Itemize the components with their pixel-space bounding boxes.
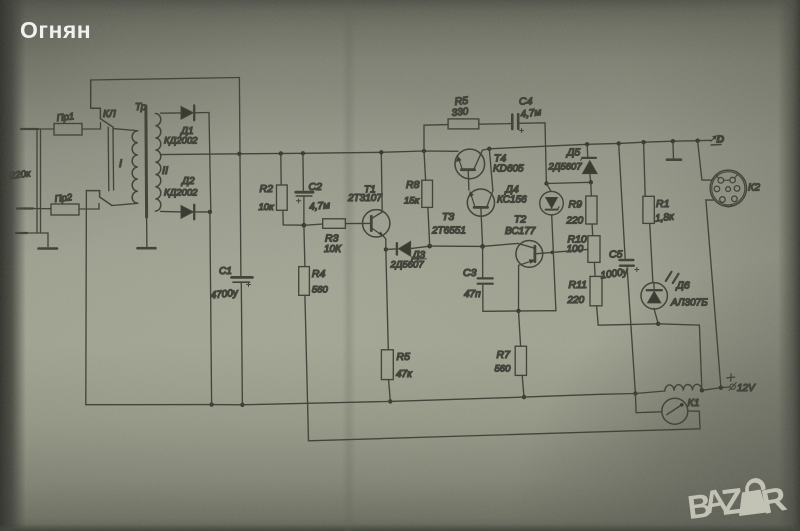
diode Д3 — [396, 243, 398, 254]
node dot after inductor — [700, 388, 704, 392]
svg-text:C4: C4 — [519, 96, 533, 108]
node bus dot K1 — [633, 391, 637, 395]
core ground stem — [146, 217, 148, 247]
wire K1 right contact to lower bus — [309, 411, 701, 441]
ground symbol mains — [39, 247, 58, 250]
diode Д2 — [181, 206, 193, 219]
resistor R3 — [323, 219, 346, 229]
resistor R5 330 — [448, 119, 479, 129]
resistor R7 — [519, 311, 521, 346]
mains prong 2 — [17, 207, 33, 209]
transformer secondary winding II — [155, 114, 160, 212]
transistor T4 — [455, 149, 485, 179]
wire node to corner down to inductor — [658, 324, 702, 391]
svg-text:R1: R1 — [656, 198, 669, 210]
switch linkage double line — [108, 127, 113, 191]
ground symbol transformer — [138, 247, 156, 250]
rail continues right of T4 — [483, 140, 711, 150]
svg-text:II: II — [162, 165, 168, 177]
wire Д1 to corner — [194, 112, 209, 114]
wire R11 bottom to LED node wire — [597, 306, 659, 325]
wire to fuse Пр1 — [38, 128, 54, 130]
secondary bottom wire to Д2 — [161, 210, 181, 213]
fuse Пр1 — [54, 124, 82, 136]
svg-text:Т3: Т3 — [442, 211, 454, 223]
wire to R3 — [304, 224, 323, 225]
node rail dot Д5 — [585, 142, 589, 146]
node bus dot C1 — [240, 403, 244, 407]
wire C5 bottom to bus — [627, 266, 635, 394]
main positive rail — [161, 151, 459, 155]
node bus dot 1 — [209, 402, 213, 406]
svg-text:2Д5607: 2Д5607 — [548, 162, 583, 173]
node rail dot T1 — [379, 150, 383, 154]
wire rail to K2 — [698, 141, 712, 180]
wire R9-R10 — [591, 224, 594, 236]
wire rail to R5 330 — [424, 125, 448, 151]
node rail dot C2 — [301, 151, 305, 155]
switch КЛ pole 1 blade — [91, 80, 114, 127]
diode Д4 zener in circle — [540, 191, 564, 215]
wire R1 to Д6 — [650, 223, 653, 282]
node rail dot ground — [671, 139, 675, 143]
resistor R9 — [590, 182, 593, 196]
wire emitter bottom node — [483, 310, 556, 313]
wire R8 to node — [428, 207, 430, 246]
svg-text:R7: R7 — [497, 349, 512, 361]
capacitor C5 — [619, 143, 626, 259]
wire Д2 to junction — [194, 211, 210, 213]
svg-text:330: 330 — [451, 106, 469, 119]
svg-text:Д5: Д5 — [566, 147, 580, 159]
wire R3 to T1 base — [345, 222, 371, 224]
wire T1 collector to rail — [380, 152, 383, 212]
wire R10-R11 — [593, 262, 596, 276]
wire Д3 to R8 node — [411, 246, 430, 248]
wire C4 to Д4 node — [519, 123, 547, 184]
wire Д6 to node — [654, 309, 658, 324]
svg-text:10К: 10К — [324, 244, 342, 255]
mains input prong top — [21, 128, 38, 130]
wire R4 down to lower bus — [305, 295, 309, 441]
svg-text:2Д5607: 2Д5607 — [390, 260, 425, 271]
wire T2 base from T3 node — [483, 243, 518, 246]
node Д6 bottom dot — [656, 322, 660, 326]
resistor R11 — [590, 276, 602, 305]
node Д5 bottom dot — [589, 180, 593, 184]
wire T3 base down — [481, 209, 483, 247]
secondary top wire to Д1 — [161, 112, 181, 114]
svg-text:I: I — [119, 158, 122, 170]
svg-text:R9: R9 — [569, 199, 583, 211]
svg-text:КЛ: КЛ — [103, 109, 116, 120]
wire T1 emitter down — [384, 236, 386, 249]
svg-text:КД2002: КД2002 — [164, 136, 198, 147]
svg-text:АЛ307Б: АЛ307Б — [670, 298, 708, 309]
node Д2 junction dot — [208, 210, 212, 214]
mains cable double wire — [37, 129, 41, 232]
resistor R5 47к — [381, 350, 393, 380]
svg-text:220: 220 — [566, 216, 584, 227]
ground symbol rail — [672, 141, 675, 159]
node collector crossing dot — [551, 251, 555, 255]
diode Д4 stem top — [547, 184, 552, 192]
wire rail dot to T3 collector — [489, 149, 493, 191]
wire R5 330 to C4 — [479, 123, 511, 126]
svg-text:10к: 10к — [259, 202, 275, 213]
svg-text:R4: R4 — [312, 268, 326, 280]
relay K1 — [662, 398, 688, 424]
svg-text:К1: К1 — [688, 397, 700, 409]
wire rail to R8 — [424, 151, 426, 180]
zener Д5 — [586, 144, 589, 157]
svg-text:КС156: КС156 — [497, 195, 527, 206]
wire emitter line down to R5 — [386, 249, 389, 349]
wire T4 base to T3 — [467, 170, 470, 190]
bottom bus — [86, 391, 665, 405]
wire R7 to bus — [522, 375, 524, 397]
svg-text:R3: R3 — [325, 233, 339, 245]
svg-text:ВС177: ВС177 — [505, 226, 536, 237]
wire rectifier output down to bus — [210, 212, 212, 405]
wire to fuse Пр2 — [29, 208, 51, 210]
svg-text:Пр2: Пр2 — [54, 192, 73, 205]
wire C3 bottom — [482, 284, 484, 312]
earth wire — [27, 233, 48, 247]
wire C1 to bus — [241, 282, 242, 405]
terminal +D arrow — [711, 137, 716, 142]
transistor T3 — [467, 189, 494, 216]
node rail dot R1 — [641, 140, 645, 144]
node base divider dot — [302, 223, 307, 228]
svg-text:15к: 15к — [404, 196, 420, 207]
left outer wire down to bottom bus — [85, 191, 88, 405]
wire T2 emitter down — [518, 265, 520, 311]
node rail dot R8/R5 — [422, 149, 426, 153]
node rail-topwire junction dot — [237, 152, 241, 156]
wire bus node to K1 left contact — [635, 394, 661, 413]
LED Д6 — [641, 283, 667, 309]
wire link Д4 node to Д5 node — [547, 182, 591, 183]
node rail dot R2 — [279, 151, 283, 155]
svg-text:47к: 47к — [396, 369, 413, 380]
svg-text:С5: С5 — [609, 249, 623, 261]
transformer primary top connect — [113, 129, 137, 131]
transformer primary bottom connect — [112, 203, 138, 205]
svg-text:560: 560 — [495, 364, 512, 375]
diode Д1 — [181, 107, 193, 120]
wire Д5 to node — [590, 174, 591, 183]
transformer core — [144, 106, 148, 217]
svg-text:2Т6551: 2Т6551 — [431, 226, 466, 237]
wire R4 node down — [304, 225, 305, 266]
wire R2 bottom — [283, 210, 304, 225]
wire C2 bottom — [303, 196, 305, 225]
wire R5 to bus — [389, 380, 391, 402]
svg-text:Д2: Д2 — [181, 176, 195, 187]
node +12V dot — [719, 386, 723, 390]
node T3 base dot — [480, 244, 485, 249]
wire fuse Пр2 to switch contact — [79, 208, 99, 210]
node rail dot K2 — [695, 139, 699, 143]
svg-text:С1: С1 — [219, 266, 232, 277]
svg-text:Д6: Д6 — [676, 280, 690, 292]
svg-text:560: 560 — [312, 285, 329, 296]
node bus dot R7 — [522, 395, 526, 399]
svg-text:К2: К2 — [748, 182, 760, 194]
wire K2 to +12V — [706, 200, 721, 388]
svg-text:KD605: KD605 — [493, 164, 524, 175]
node bus dot R5 — [388, 399, 392, 403]
terminal +12V — [721, 386, 730, 389]
wire emitter node to Д3 — [386, 248, 396, 251]
resistor R2 — [280, 154, 282, 186]
svg-text:47п: 47п — [464, 289, 481, 300]
svg-text:1,8к: 1,8к — [655, 211, 676, 224]
BAZAR watermark — [685, 478, 789, 526]
svg-text:220: 220 — [567, 295, 585, 306]
svg-text:Пр1: Пр1 — [56, 111, 75, 124]
node emitter bus dot — [516, 309, 520, 313]
svg-text:4,7м: 4,7м — [309, 200, 331, 213]
mains earth prong — [16, 232, 27, 234]
node emitter dot — [384, 247, 388, 251]
svg-text:2Т3107: 2Т3107 — [347, 193, 382, 204]
node Д4 top dot — [544, 181, 548, 185]
svg-text:R11: R11 — [569, 279, 587, 291]
fuse Пр2 — [51, 204, 79, 215]
wire inductor to +12V — [702, 388, 721, 391]
svg-text:R2: R2 — [260, 183, 274, 195]
svg-text:С3: С3 — [463, 267, 477, 279]
resistor R1 — [644, 142, 646, 196]
switch КЛ fixed contact tick top — [100, 123, 102, 130]
vertical Д1-Д2 cathode link — [209, 113, 211, 212]
wire fuse Пр1 to switch contact — [82, 128, 101, 130]
inductor K1 coil — [665, 384, 702, 391]
resistor R4 — [299, 267, 310, 296]
switch КЛ fixed contact tick bottom — [98, 204, 100, 210]
vertical top-wire through rail to C1 and bus — [239, 78, 241, 277]
node rail dot T4 — [487, 147, 491, 151]
wire node to T3 base node — [430, 245, 483, 247]
capacitor C3 — [482, 246, 484, 277]
svg-text:C2: C2 — [309, 181, 323, 193]
svg-text:R8: R8 — [406, 179, 420, 191]
node R8 bottom dot — [427, 244, 432, 249]
resistor R10 — [588, 236, 600, 263]
svg-text:100: 100 — [567, 244, 584, 255]
wire Д4 bottom down to emitter node wire — [552, 215, 556, 311]
switch КЛ pole 2 blade — [86, 191, 112, 206]
svg-text:Т2: Т2 — [514, 214, 526, 226]
transformer primary winding I — [132, 131, 138, 204]
svg-text:12V: 12V — [737, 383, 756, 394]
wire T2 collector to R10 — [535, 249, 588, 253]
paper fold crease — [342, 0, 356, 531]
capacitor C4 — [511, 115, 514, 130]
connector K2 — [710, 170, 746, 206]
svg-text:D: D — [717, 134, 725, 146]
svg-text:Огнян: Огнян — [20, 17, 91, 43]
capacitor C2 — [302, 153, 305, 191]
resistor R8 — [422, 180, 433, 207]
svg-text:КД2002: КД2002 — [164, 188, 198, 199]
svg-text:R5: R5 — [397, 351, 411, 363]
transistor T2 — [516, 241, 543, 268]
node rail dot C5 — [617, 141, 621, 145]
transistor T1 — [363, 210, 390, 237]
top wire from switch to rail junction — [91, 78, 240, 81]
